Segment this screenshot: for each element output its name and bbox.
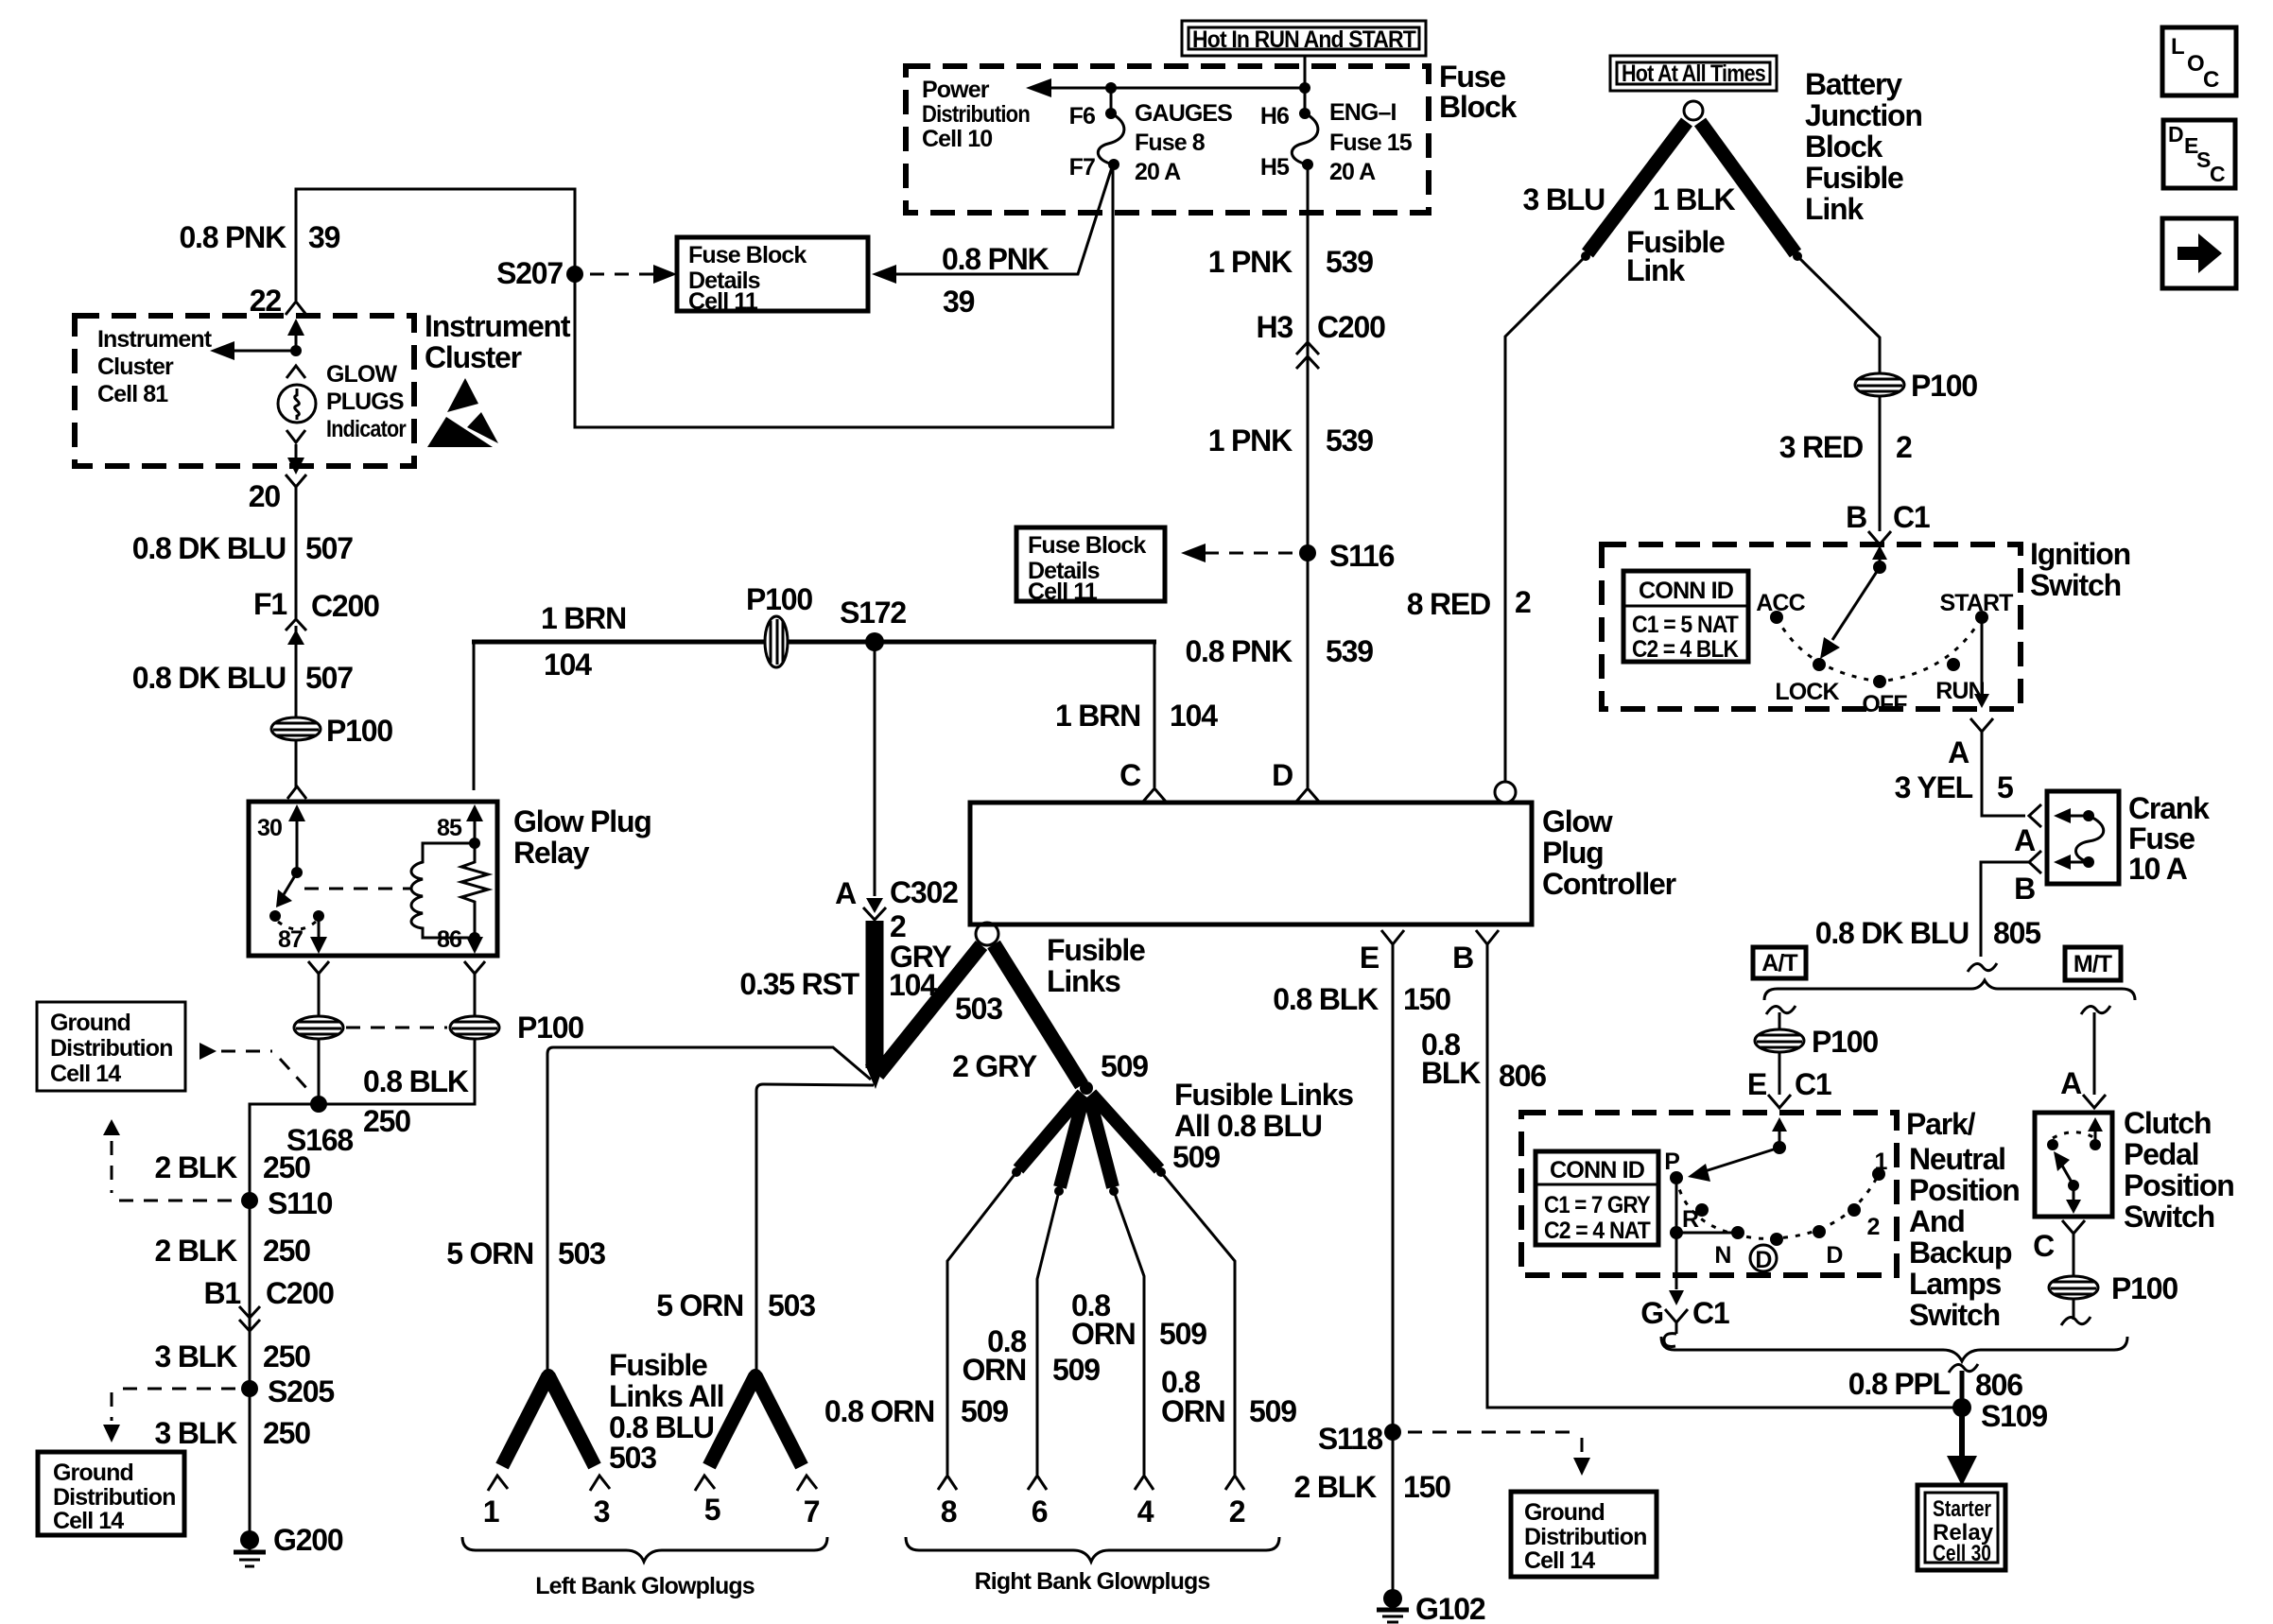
svg-text:C: C bbox=[2203, 67, 2219, 93]
wire glowplug 4 drop bbox=[1114, 1191, 1144, 1475]
svg-text:A: A bbox=[2060, 1066, 2082, 1100]
label 0.8 BLK 150 bbox=[1273, 982, 1450, 1016]
right bank fan junction bbox=[1080, 1081, 1093, 1095]
controller pin C bbox=[1119, 758, 1166, 802]
svg-text:0.8 PNK: 0.8 PNK bbox=[942, 242, 1050, 276]
controller pin B bbox=[1452, 930, 1499, 975]
wire break squiggle (M/T branch) bbox=[2081, 1006, 2110, 1014]
svg-text:30: 30 bbox=[257, 815, 282, 841]
label 1 PNK 539 (upper) bbox=[1208, 245, 1373, 279]
label 2 BLK 150 bbox=[1294, 1470, 1451, 1504]
position LOCK bbox=[1775, 658, 1839, 705]
dashed tie between P100 grommets bbox=[346, 1027, 447, 1029]
svg-text:1 PNK: 1 PNK bbox=[1208, 245, 1293, 279]
label Crank Fuse 10 A bbox=[2128, 791, 2210, 886]
wire 0.8 BLK 806 pin B to S109 bbox=[1487, 944, 1953, 1408]
wire 1 PNK 539 from H5 bbox=[1307, 164, 1310, 546]
svg-text:Cell 10: Cell 10 bbox=[922, 126, 992, 152]
svg-text:250: 250 bbox=[263, 1339, 310, 1373]
connector chevrons below relay bbox=[308, 961, 485, 974]
svg-text:C1: C1 bbox=[1692, 1296, 1729, 1330]
svg-text:C1 = 5 NAT: C1 = 5 NAT bbox=[1632, 612, 1739, 638]
wire 0.8 BLK 150 pin E to G102 bbox=[1392, 944, 1395, 1596]
svg-text:Fusible Links: Fusible Links bbox=[1174, 1078, 1353, 1112]
battery fusible link right (thick) bbox=[1700, 122, 1802, 261]
connector pin A (ignition) bbox=[1948, 718, 1993, 769]
svg-text:C: C bbox=[2210, 162, 2226, 186]
crank fuse pin B (label) bbox=[2014, 872, 2035, 906]
svg-text:E: E bbox=[1360, 941, 1379, 975]
svg-text:1 BRN: 1 BRN bbox=[1055, 699, 1140, 733]
label Power Distribution Cell 10 bbox=[922, 77, 1030, 152]
connector chevron 20 below cluster bbox=[286, 475, 306, 487]
label 2 BLK 250 (first) bbox=[155, 1150, 311, 1184]
battery junction terminal circle bbox=[1684, 101, 1703, 120]
svg-text:509: 509 bbox=[961, 1394, 1008, 1428]
splice S172 bbox=[840, 596, 906, 651]
park switch lever bbox=[1688, 1117, 1787, 1182]
svg-text:2: 2 bbox=[890, 909, 906, 943]
svg-text:C2 = 4 BLK: C2 = 4 BLK bbox=[1632, 636, 1739, 663]
svg-text:P100: P100 bbox=[1812, 1025, 1878, 1059]
labels F6 F7 GAUGES Fuse 8 20 A bbox=[1069, 100, 1233, 185]
svg-text:S116: S116 bbox=[1329, 539, 1395, 573]
svg-text:Block: Block bbox=[1805, 130, 1883, 164]
svg-text:22: 22 bbox=[250, 284, 282, 318]
box Fuse Block Details Cell 11 (upper) bbox=[677, 237, 868, 315]
position 2 bbox=[1848, 1203, 1880, 1240]
svg-text:Power: Power bbox=[922, 77, 990, 103]
svg-text:Cell 81: Cell 81 bbox=[97, 381, 168, 407]
svg-text:0.8 BLK: 0.8 BLK bbox=[1273, 982, 1379, 1016]
label 0.8 BLK 806 bbox=[1421, 1028, 1546, 1093]
splice S168 bbox=[286, 1096, 353, 1157]
svg-text:Ground: Ground bbox=[53, 1460, 133, 1486]
position ACC bbox=[1756, 590, 1805, 624]
box CONN ID (ignition) bbox=[1623, 571, 1748, 663]
label GLOW PLUGS Indicator bbox=[326, 361, 407, 442]
svg-text:Glow: Glow bbox=[1542, 804, 1613, 838]
connector pin C (clutch switch) bbox=[2033, 1220, 2085, 1263]
svg-text:F7: F7 bbox=[1069, 154, 1095, 181]
svg-text:503: 503 bbox=[955, 992, 1002, 1026]
battery fusible link left (thick) bbox=[1581, 122, 1687, 261]
svg-text:Right Bank Glowplugs: Right Bank Glowplugs bbox=[975, 1568, 1210, 1595]
label 0.35 RST bbox=[739, 967, 859, 1001]
svg-text:0.8 DK BLU: 0.8 DK BLU bbox=[1815, 916, 1969, 950]
svg-text:Ground: Ground bbox=[50, 1010, 130, 1036]
svg-text:2: 2 bbox=[1515, 585, 1531, 619]
wire 0.8 PNK 539 from S116 to pin D bbox=[1307, 553, 1310, 787]
wire 0.8 DK BLU 805 bbox=[1981, 862, 2029, 957]
svg-text:39: 39 bbox=[943, 285, 975, 319]
clutch switch lever bbox=[2054, 1151, 2081, 1214]
label 0.8 BLK 250 bbox=[363, 1064, 469, 1138]
svg-text:Left Bank Glowplugs: Left Bank Glowplugs bbox=[535, 1573, 755, 1599]
svg-text:ORN: ORN bbox=[1071, 1317, 1136, 1351]
wire break squiggle (A/T branch) bbox=[1766, 1006, 1796, 1014]
svg-text:Ignition: Ignition bbox=[2030, 537, 2130, 571]
connector chevron below indicator bbox=[286, 430, 305, 442]
crank fuse box bbox=[2047, 791, 2119, 884]
svg-text:N: N bbox=[1714, 1242, 1730, 1269]
svg-text:M/T: M/T bbox=[2073, 951, 2112, 977]
ground G200 bbox=[234, 1523, 343, 1566]
svg-text:250: 250 bbox=[363, 1104, 410, 1138]
svg-text:Crank: Crank bbox=[2128, 791, 2210, 825]
wire hot feed into fuse block bbox=[1304, 56, 1307, 113]
brace Left Bank Glowplugs bbox=[462, 1537, 827, 1599]
svg-text:5: 5 bbox=[1997, 770, 2013, 804]
position D (overdrive) bbox=[1813, 1225, 1843, 1269]
svg-text:Distribution: Distribution bbox=[1524, 1524, 1646, 1550]
svg-text:Switch: Switch bbox=[1909, 1298, 2000, 1332]
label Instrument Cluster Cell 81 bbox=[97, 326, 213, 407]
position OFF bbox=[1862, 675, 1907, 717]
svg-text:104: 104 bbox=[544, 648, 592, 682]
svg-text:D: D bbox=[2168, 122, 2184, 147]
svg-text:G200: G200 bbox=[273, 1523, 343, 1557]
label 0.8 ORN 509 (wire 6) bbox=[962, 1324, 1100, 1387]
label 1 BRN 104 (center) bbox=[1055, 699, 1218, 733]
wire pin 87 P100 down to S168 bbox=[318, 1038, 321, 1104]
svg-text:0.8 BLK: 0.8 BLK bbox=[363, 1064, 469, 1098]
clutch pedal switch box bbox=[2035, 1113, 2112, 1217]
crank fuse pin A (label) bbox=[2014, 823, 2036, 857]
svg-text:Backup: Backup bbox=[1909, 1235, 2012, 1270]
label 503 (left link) bbox=[955, 992, 1002, 1026]
connector F1 C200 bbox=[253, 587, 379, 645]
svg-text:2 BLK: 2 BLK bbox=[155, 1234, 238, 1268]
svg-text:Cluster: Cluster bbox=[425, 340, 522, 374]
wire S172 down to connector C302 pin A bbox=[874, 642, 876, 896]
svg-text:LOCK: LOCK bbox=[1775, 679, 1839, 705]
wire break squiggle (PPL) bbox=[1949, 1364, 1978, 1373]
label 3 BLK 250 (second) bbox=[155, 1416, 311, 1450]
label 0.8 ORN 509 (wire 2) bbox=[1161, 1365, 1296, 1428]
svg-text:Distribution: Distribution bbox=[922, 101, 1030, 128]
svg-text:C302: C302 bbox=[890, 875, 958, 909]
fuse block dashed box bbox=[906, 66, 1429, 213]
svg-text:3: 3 bbox=[594, 1494, 610, 1529]
svg-text:P100: P100 bbox=[746, 582, 812, 616]
svg-text:GAUGES: GAUGES bbox=[1135, 100, 1232, 127]
label 3 YEL 5 bbox=[1895, 770, 2013, 804]
fusible link to glowplug 2 bbox=[1091, 1094, 1166, 1177]
wire 0.8 DK BLU 507 upper bbox=[295, 487, 298, 618]
svg-text:RUN: RUN bbox=[1935, 678, 1984, 704]
svg-text:3 RED: 3 RED bbox=[1779, 430, 1863, 464]
svg-text:A: A bbox=[835, 876, 857, 910]
wire 0.8 PNK 39 circuit: cluster to S207 to F7 bbox=[296, 164, 1113, 427]
wire 0.8 DK BLU 507 lower bbox=[295, 643, 298, 718]
left bank V link 1-3 (thick) bbox=[502, 1369, 595, 1466]
park/neutral switch dashed box bbox=[1521, 1113, 1897, 1275]
dashed reference S110 to ground cell bbox=[103, 1119, 234, 1201]
ground G102 bbox=[1377, 1589, 1485, 1624]
svg-text:509: 509 bbox=[1159, 1317, 1206, 1351]
relay switch lever bbox=[269, 872, 297, 922]
svg-text:Switch: Switch bbox=[2124, 1200, 2214, 1234]
connector chevron above indicator bbox=[286, 366, 305, 378]
svg-text:104: 104 bbox=[1170, 699, 1218, 733]
label 0.8 DK BLU 507 lower bbox=[132, 661, 353, 695]
splice S110 bbox=[241, 1186, 333, 1220]
connector chevron relay pin 30 bbox=[287, 786, 306, 799]
svg-text:Distribution: Distribution bbox=[50, 1035, 172, 1062]
grommet P100 (RED wire) bbox=[1855, 369, 1977, 403]
box DESC bbox=[2163, 120, 2235, 188]
svg-text:O: O bbox=[2187, 51, 2205, 77]
svg-text:B: B bbox=[2014, 872, 2035, 906]
wire 0.8 BLK 250 from pin 86 P100 to S168 bbox=[326, 1038, 475, 1104]
splice S118 bbox=[1318, 1422, 1401, 1456]
fuse ENG-I Fuse 15 20 A bbox=[1292, 108, 1318, 170]
left bank V link 5-7 (thick) bbox=[709, 1369, 802, 1466]
wire 1 BRN 104 bus from relay to S172 and pin C bbox=[472, 642, 1156, 790]
fuse GAUGES Fuse 8 20 A bbox=[1098, 88, 1124, 170]
fusible link 2 GRY 104 (thick) bbox=[865, 921, 884, 1089]
svg-text:0.8 BLU: 0.8 BLU bbox=[609, 1410, 714, 1444]
svg-text:Position: Position bbox=[1909, 1173, 2020, 1207]
svg-text:503: 503 bbox=[609, 1441, 656, 1475]
box LOC bbox=[2162, 27, 2236, 95]
svg-text:1 BRN: 1 BRN bbox=[541, 601, 626, 635]
position 1 bbox=[1872, 1149, 1887, 1181]
svg-text:1: 1 bbox=[1874, 1149, 1887, 1175]
relay contact 87 dot and dashed throw arc bbox=[278, 910, 324, 929]
svg-text:C1: C1 bbox=[1795, 1067, 1831, 1101]
svg-text:20 A: 20 A bbox=[1135, 159, 1181, 185]
svg-text:509: 509 bbox=[1052, 1353, 1100, 1387]
svg-text:Fuse 15: Fuse 15 bbox=[1329, 130, 1413, 156]
svg-text:And: And bbox=[1909, 1204, 1965, 1238]
svg-text:Glow Plug: Glow Plug bbox=[513, 804, 651, 838]
svg-text:5 ORN: 5 ORN bbox=[446, 1236, 533, 1270]
brace Right Bank Glowplugs bbox=[906, 1537, 1279, 1595]
svg-text:A/T: A/T bbox=[1761, 950, 1797, 976]
svg-text:507: 507 bbox=[305, 531, 353, 565]
svg-text:Hot In RUN And START: Hot In RUN And START bbox=[1192, 26, 1416, 53]
svg-text:539: 539 bbox=[1326, 634, 1373, 668]
svg-text:150: 150 bbox=[1403, 982, 1450, 1016]
controller input circle (8 RED) bbox=[1495, 782, 1516, 803]
svg-text:Starter: Starter bbox=[1933, 1496, 1991, 1522]
svg-text:4: 4 bbox=[1137, 1494, 1154, 1529]
label 1 PNK 539 (lower) bbox=[1208, 423, 1373, 458]
position N bbox=[1714, 1226, 1744, 1269]
label 0.8 PNK 39 (top left) bbox=[179, 220, 339, 254]
svg-text:Position: Position bbox=[2124, 1168, 2234, 1202]
dashed reference arrow S207 to Fuse Block Details bbox=[590, 265, 677, 284]
position P bbox=[1664, 1149, 1683, 1184]
svg-text:ACC: ACC bbox=[1756, 590, 1805, 616]
svg-text:20 A: 20 A bbox=[1329, 159, 1376, 185]
wire glowplug 6 drop bbox=[1037, 1191, 1059, 1475]
grommet P100 (BRN wire) bbox=[746, 582, 812, 667]
svg-text:S172: S172 bbox=[840, 596, 906, 630]
svg-text:Cell 14: Cell 14 bbox=[50, 1061, 121, 1087]
controller pin E bbox=[1360, 930, 1404, 975]
splice S207 bbox=[496, 256, 583, 290]
svg-text:2: 2 bbox=[1229, 1494, 1245, 1529]
connector chevron 22 into instrument cluster bbox=[286, 302, 306, 315]
svg-text:2 BLK: 2 BLK bbox=[1294, 1470, 1378, 1504]
svg-text:ORN: ORN bbox=[962, 1353, 1026, 1387]
controller pin D bbox=[1272, 758, 1319, 802]
svg-text:CONN ID: CONN ID bbox=[1550, 1157, 1644, 1183]
wire clutch switch to P100 bbox=[2073, 1234, 2075, 1277]
svg-text:D: D bbox=[1272, 758, 1293, 792]
ESD sensitivity symbol bbox=[427, 378, 498, 447]
connector E C1 (park switch) bbox=[1747, 1067, 1831, 1108]
svg-text:1 PNK: 1 PNK bbox=[1208, 423, 1293, 458]
svg-text:6: 6 bbox=[1032, 1494, 1048, 1529]
svg-text:805: 805 bbox=[1993, 916, 2040, 950]
arc dot (between P and N) bbox=[1695, 1203, 1709, 1217]
svg-text:539: 539 bbox=[1326, 245, 1373, 279]
wire 0.8 PPL 806 to S109 bbox=[1960, 1371, 1965, 1408]
svg-text:86: 86 bbox=[437, 926, 461, 953]
svg-text:GLOW: GLOW bbox=[326, 361, 397, 388]
label 0.8 DK BLU 507 upper bbox=[132, 531, 353, 565]
label 3 BLK 250 (first) bbox=[155, 1339, 311, 1373]
svg-text:ORN: ORN bbox=[1161, 1394, 1225, 1428]
svg-text:C: C bbox=[1119, 758, 1141, 792]
svg-text:Plug: Plug bbox=[1542, 836, 1604, 870]
svg-text:3 BLK: 3 BLK bbox=[155, 1339, 238, 1373]
label 8 RED 2 bbox=[1407, 585, 1531, 621]
svg-text:Cell 14: Cell 14 bbox=[53, 1508, 124, 1534]
wire power distribution feed arrow bbox=[1026, 78, 1310, 97]
label 20 bbox=[249, 479, 281, 513]
glowplug pins 8 6 4 2 bbox=[938, 1476, 1245, 1529]
fusible link to glowplug 6 bbox=[1054, 1097, 1084, 1196]
connector B C1 (ignition) bbox=[1846, 500, 1930, 544]
svg-text:Controller: Controller bbox=[1542, 867, 1676, 901]
svg-text:3 BLU: 3 BLU bbox=[1523, 182, 1605, 216]
svg-text:0.8 DK BLU: 0.8 DK BLU bbox=[132, 661, 286, 695]
box Ground Distribution Cell 14 (lower left) bbox=[38, 1452, 184, 1535]
connector A C302 bbox=[835, 875, 958, 920]
relay pin 30 wire and switch pivot bbox=[257, 804, 305, 878]
ignition positions dashed arc bbox=[1777, 617, 1982, 682]
svg-text:Cell 11: Cell 11 bbox=[1028, 579, 1098, 605]
splice S109 bbox=[1952, 1398, 2047, 1433]
svg-text:0.35 RST: 0.35 RST bbox=[739, 967, 859, 1001]
svg-text:2 BLK: 2 BLK bbox=[155, 1150, 238, 1184]
label 2 GRY 509 bbox=[952, 1049, 1148, 1083]
svg-text:Cell 11: Cell 11 bbox=[688, 288, 758, 315]
box A/T bbox=[1753, 947, 1806, 978]
svg-text:Links All: Links All bbox=[609, 1379, 723, 1413]
svg-text:7: 7 bbox=[804, 1494, 820, 1529]
svg-text:507: 507 bbox=[305, 661, 353, 695]
svg-text:Fusible: Fusible bbox=[609, 1348, 707, 1382]
svg-text:D: D bbox=[1826, 1242, 1842, 1269]
svg-text:Fuse 8: Fuse 8 bbox=[1135, 130, 1206, 156]
svg-text:1: 1 bbox=[483, 1494, 499, 1529]
wire M/T branch to clutch switch bbox=[2093, 1012, 2096, 1095]
wire left bank feed 1 (to glowplugs 1-3) bbox=[547, 1047, 871, 1373]
svg-text:0.8 DK BLU: 0.8 DK BLU bbox=[132, 531, 286, 565]
relay coil bbox=[411, 843, 475, 938]
label Fusible Links bbox=[1047, 933, 1145, 998]
svg-text:2 GRY: 2 GRY bbox=[952, 1049, 1037, 1083]
svg-text:87: 87 bbox=[278, 926, 303, 953]
svg-text:A: A bbox=[1948, 735, 1969, 769]
svg-text:2: 2 bbox=[1896, 430, 1912, 464]
position START bbox=[1940, 590, 2014, 624]
label 3 BLU / 1 BLK Fusible Link bbox=[1523, 182, 1736, 287]
instrument cluster dashed box bbox=[75, 316, 414, 466]
label 0.8 PNK 539 bbox=[1185, 634, 1373, 668]
position RUN bbox=[1935, 658, 1984, 704]
wire S168 left and down to G200 bbox=[250, 1104, 311, 1531]
svg-text:B: B bbox=[1846, 500, 1866, 534]
label 0.8 ORN 509 (wire 4) bbox=[1071, 1288, 1206, 1351]
svg-text:B1: B1 bbox=[203, 1276, 240, 1310]
svg-text:Park/: Park/ bbox=[1906, 1107, 1976, 1141]
svg-text:Switch: Switch bbox=[2030, 568, 2121, 602]
svg-text:C1: C1 bbox=[1893, 500, 1930, 534]
svg-text:509: 509 bbox=[1172, 1140, 1220, 1174]
svg-text:C1 = 7 GRY: C1 = 7 GRY bbox=[1544, 1192, 1651, 1218]
svg-text:806: 806 bbox=[1499, 1059, 1546, 1093]
svg-text:G102: G102 bbox=[1415, 1592, 1485, 1624]
glowplug pins 5 7 bbox=[695, 1476, 820, 1529]
wire P100 to brace with squiggle bbox=[2061, 1299, 2091, 1325]
svg-text:S207: S207 bbox=[496, 256, 563, 290]
connector H3 C200 bbox=[1256, 310, 1385, 369]
label Clutch Pedal Position Switch bbox=[2124, 1106, 2234, 1234]
indicator lamp GLOW PLUGS bbox=[278, 385, 316, 423]
wire R to N bbox=[1676, 1232, 1738, 1235]
svg-text:Hot At All Times: Hot At All Times bbox=[1622, 60, 1765, 87]
svg-text:20: 20 bbox=[249, 479, 281, 513]
dashed reference arrow S116 to Fuse Block Details bbox=[1181, 544, 1293, 562]
svg-text:S118: S118 bbox=[1318, 1422, 1383, 1456]
svg-text:PLUGS: PLUGS bbox=[326, 389, 404, 415]
connector G C1 (park switch) bbox=[1640, 1296, 1729, 1346]
svg-text:F1: F1 bbox=[253, 587, 286, 621]
label 0.8 PPL 806 bbox=[1848, 1367, 2022, 1402]
relay pin 86 wire bbox=[437, 926, 483, 954]
svg-text:Cluster: Cluster bbox=[97, 354, 174, 380]
circled position D bbox=[1750, 1233, 1783, 1273]
relay pin 87 wire bbox=[278, 916, 327, 954]
brace A/T M/T split bbox=[1764, 980, 2135, 1000]
label 509 (fan) bbox=[1172, 1140, 1220, 1174]
svg-text:P100: P100 bbox=[517, 1011, 583, 1045]
svg-text:3 BLK: 3 BLK bbox=[155, 1416, 238, 1450]
label 5 ORN 503 (first) bbox=[446, 1236, 605, 1270]
svg-text:H5: H5 bbox=[1260, 154, 1290, 181]
wire park switch output G bbox=[1669, 1233, 1684, 1305]
label Battery Junction Block Fusible Link bbox=[1805, 67, 1922, 226]
svg-text:BLK: BLK bbox=[1421, 1056, 1481, 1090]
box CONN ID (park switch) bbox=[1536, 1151, 1658, 1245]
svg-text:2: 2 bbox=[1866, 1214, 1879, 1240]
dashed reference arrow to S168 bbox=[200, 1043, 308, 1090]
wire cluster internal feed with arrow bbox=[287, 319, 304, 356]
dashed reference S205 to ground cell bbox=[103, 1389, 236, 1443]
wire P to R bbox=[1675, 1178, 1678, 1233]
svg-text:Link: Link bbox=[1805, 192, 1864, 226]
svg-text:Fuse: Fuse bbox=[2128, 821, 2195, 855]
svg-text:Fuse Block: Fuse Block bbox=[688, 242, 807, 268]
svg-text:509: 509 bbox=[1249, 1394, 1296, 1428]
